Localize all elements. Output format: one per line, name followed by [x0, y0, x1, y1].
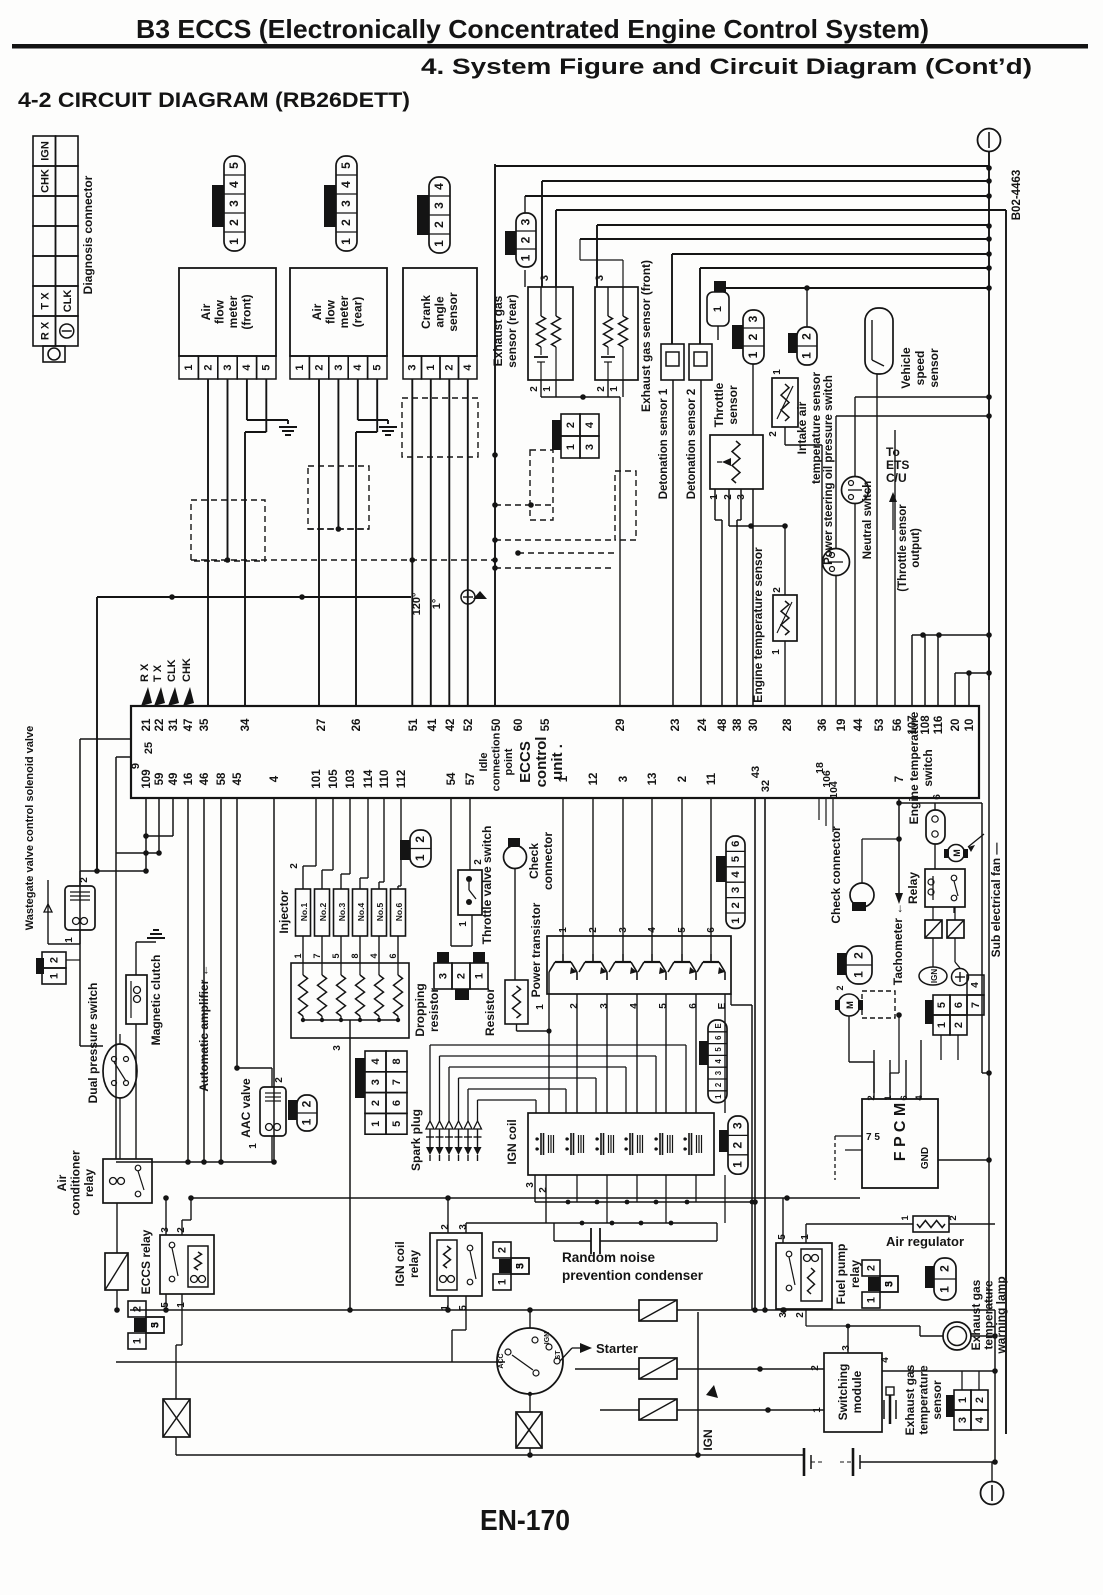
- IGN coil harness connector 7cell: [708, 1020, 727, 1103]
- shield dashed box exhaust sensor drain: [530, 450, 553, 520]
- wire DPS top: [80, 1045, 103, 1047]
- svg-text:angle: angle: [433, 296, 447, 328]
- svg-text:1: 1: [370, 1121, 382, 1127]
- exhaust gas temperature warning lamp: [943, 1322, 971, 1350]
- wire injector No.5 to dropping resistor: [378, 936, 380, 963]
- svg-text:sensor: sensor: [726, 385, 740, 425]
- wire AFM front pin5 to ECU pin34: [265, 379, 267, 432]
- AAC valve connector: [297, 1095, 317, 1131]
- fuel pump relay box: [776, 1243, 832, 1309]
- svg-text:To: To: [886, 445, 900, 459]
- wire ECU pin46 down: [203, 798, 205, 1162]
- svg-text:2: 2: [835, 985, 845, 990]
- svg-text:2: 2: [677, 776, 689, 782]
- EGS sub harness connector 4cell: [561, 414, 580, 436]
- svg-text:108: 108: [920, 715, 932, 735]
- svg-text:5: 5: [515, 1263, 526, 1269]
- svg-text:2: 2: [227, 219, 241, 226]
- wire AFM rear pin4 to ground: [357, 379, 359, 420]
- svg-text:conditioner: conditioner: [69, 1150, 83, 1216]
- svg-text:1: 1: [293, 953, 303, 958]
- wire PS switch to right bus: [854, 397, 856, 477]
- svg-text:Random noise: Random noise: [562, 1250, 656, 1265]
- sub fan relay box: [925, 869, 965, 907]
- svg-text:1: 1: [227, 238, 241, 245]
- wires coils to buses: [576, 1175, 578, 1202]
- svg-text:2: 2: [810, 1365, 821, 1371]
- svg-text:ACC: ACC: [498, 1353, 505, 1368]
- svg-text:Power transistor: Power transistor: [529, 902, 543, 997]
- svg-text:unit .: unit .: [549, 744, 566, 780]
- svg-text:M: M: [952, 849, 962, 857]
- svg-text:1: 1: [883, 1095, 894, 1101]
- svg-text:1: 1: [771, 649, 782, 655]
- svg-text:36: 36: [817, 719, 829, 732]
- spark plugs: [426, 1121, 434, 1129]
- sub fan arrow: [968, 834, 984, 847]
- svg-text:4. System Figure and Circuit: 4. System Figure and Circuit Diagram (Co…: [421, 54, 1032, 79]
- wire CAS pin3 to ECU pin51: [411, 379, 413, 706]
- fuse row 2: [639, 1358, 677, 1379]
- svg-text:4: 4: [432, 183, 446, 190]
- svg-text:2: 2: [938, 1265, 952, 1272]
- ACC feed line: [116, 1361, 505, 1363]
- svg-text:relay: relay: [407, 1250, 421, 1278]
- wire to right border: [556, 209, 1006, 211]
- ignition coil 3: [600, 1133, 602, 1155]
- wire lamp to right bus: [971, 1335, 995, 1337]
- detonation sensor 2: [689, 344, 712, 380]
- svg-text:ST: ST: [555, 1350, 562, 1360]
- coil secondary connector 3cell: [728, 1116, 748, 1174]
- svg-text:(rear): (rear): [351, 297, 365, 328]
- svg-text:21: 21: [141, 718, 153, 731]
- dropping resistor bus: [303, 1019, 398, 1021]
- IGN coil relay connector: [493, 1242, 511, 1258]
- svg-text:3: 3: [714, 1070, 723, 1075]
- injector No.2: [315, 889, 330, 936]
- exhaust loom left drop: [494, 164, 496, 706]
- crank angle sensor pin strip: [403, 356, 422, 379]
- AAC valve solenoid: [260, 1087, 286, 1136]
- svg-text:sensor: sensor: [446, 292, 460, 332]
- svg-text:34: 34: [240, 718, 252, 731]
- relay fuses: [925, 920, 942, 938]
- svg-text:IGN: IGN: [930, 969, 939, 983]
- svg-text:relay: relay: [848, 1260, 862, 1288]
- wire throttle sensor pin2 to engine temp sensor junction: [728, 489, 730, 526]
- wastegate valve control solenoid valve: [65, 886, 95, 930]
- air flow meter (rear) harness connector: [336, 156, 357, 251]
- svg-text:2: 2: [746, 333, 760, 340]
- svg-text:3: 3: [222, 364, 234, 370]
- main relay bus upper: [191, 1197, 860, 1199]
- svg-text:105: 105: [328, 769, 340, 789]
- svg-text:5: 5: [261, 364, 273, 370]
- ignition coil 1: [540, 1133, 542, 1155]
- diagnosis connector ground pin symbol: [60, 324, 74, 338]
- svg-text:3: 3: [370, 1079, 382, 1085]
- svg-text:1: 1: [746, 351, 760, 358]
- svg-text:1: 1: [300, 1118, 314, 1125]
- svg-text:connection: connection: [491, 732, 503, 791]
- wire ECU pin54 to throttle valve switch: [450, 798, 452, 946]
- svg-text:47: 47: [183, 719, 195, 732]
- air regulator: [913, 1216, 949, 1232]
- shield collector wire to ECU pin50 region: [97, 596, 411, 598]
- svg-text:2: 2: [800, 333, 814, 340]
- svg-text:Neutral switch: Neutral switch: [862, 481, 874, 560]
- wire ECU pin7 branch to engine temp switch and fan feed: [899, 802, 982, 804]
- wire ECU pins 20 10 bus: [955, 672, 989, 674]
- svg-text:IGN coil: IGN coil: [393, 1241, 407, 1286]
- svg-text:Throttle: Throttle: [712, 382, 726, 427]
- svg-text:3: 3: [841, 1345, 852, 1351]
- wire check connector to resistor: [514, 868, 516, 980]
- svg-text:2: 2: [866, 1095, 877, 1100]
- svg-text:3: 3: [618, 776, 630, 782]
- svg-text:23: 23: [670, 719, 682, 732]
- svg-text:2: 2: [413, 836, 427, 843]
- svg-text:1: 1: [535, 1004, 546, 1010]
- right border wire: [1005, 210, 1007, 1434]
- wire FPCM GND right: [938, 1159, 989, 1161]
- svg-text:2: 2: [596, 386, 607, 392]
- svg-text:E: E: [717, 1002, 728, 1009]
- wire EGS front out: [607, 380, 609, 397]
- svg-text:9: 9: [130, 763, 142, 769]
- svg-text:1: 1: [339, 238, 353, 245]
- fusible link ignition: [516, 1412, 542, 1448]
- wires air regulator: [806, 1223, 913, 1225]
- shield dashed box AFM front: [191, 500, 265, 561]
- wire ECU pin45 down: [236, 798, 238, 1068]
- sensor cell rear: [540, 347, 542, 355]
- wire CAS pin1 to ECU pin41: [430, 379, 432, 706]
- svg-text:EN-170: EN-170: [480, 1505, 570, 1537]
- svg-text:54: 54: [446, 772, 458, 785]
- resistor box: [505, 980, 528, 1024]
- svg-text:meter: meter: [226, 295, 240, 328]
- sub harness connector single cell: [714, 281, 726, 292]
- svg-text:Idle: Idle: [478, 753, 490, 772]
- svg-text:Dual pressure switch: Dual pressure switch: [86, 983, 100, 1104]
- svg-text:Air: Air: [55, 1174, 69, 1191]
- right feed vertical: [697, 1312, 699, 1455]
- svg-text:1: 1: [49, 973, 61, 979]
- svg-text:R X: R X: [139, 663, 151, 682]
- wire ECU pin16 down: [187, 798, 189, 1162]
- svg-text:1: 1: [900, 1215, 911, 1221]
- svg-text:10: 10: [964, 719, 976, 732]
- injector No.6: [391, 889, 406, 936]
- svg-text:Engine temperature: Engine temperature: [907, 711, 921, 824]
- svg-text:3: 3: [432, 202, 446, 209]
- throttle sensor connector 3cell: [743, 310, 764, 364]
- svg-text:55: 55: [540, 718, 552, 731]
- svg-text:1: 1: [712, 306, 724, 312]
- svg-text:7: 7: [894, 776, 906, 782]
- svg-text:26: 26: [351, 719, 363, 732]
- svg-text:110: 110: [379, 770, 391, 789]
- battery positive terminal circle top right: [978, 129, 1001, 152]
- svg-text:CHK: CHK: [39, 169, 51, 193]
- svg-text:6: 6: [714, 1035, 723, 1040]
- svg-text:28: 28: [782, 718, 794, 731]
- svg-text:1: 1: [730, 917, 742, 924]
- svg-text:(front): (front): [240, 294, 254, 329]
- svg-text:Dropping: Dropping: [413, 983, 427, 1036]
- ECCS relay box: [160, 1235, 214, 1294]
- svg-text:1: 1: [609, 386, 620, 392]
- svg-text:27: 27: [316, 719, 328, 732]
- svg-text:42: 42: [445, 719, 457, 732]
- wire ECU pin49 down: [172, 798, 174, 836]
- svg-text:5: 5: [150, 1322, 161, 1328]
- svg-text:4: 4: [730, 871, 742, 878]
- svg-text:Automatic amplifier ←: Automatic amplifier ←: [197, 964, 211, 1091]
- svg-text:4: 4: [370, 1057, 382, 1064]
- wire ECU pin32 down to ground bus: [764, 798, 766, 1310]
- svg-text:Switching: Switching: [836, 1364, 850, 1421]
- wire exhaust loom 2: [542, 180, 989, 182]
- wire ECU to injector No.4: [367, 798, 369, 878]
- wire detonation 2: [700, 267, 989, 269]
- svg-text:4: 4: [629, 1003, 640, 1009]
- svg-text:4: 4: [269, 775, 281, 782]
- wire injector No.2 to dropping resistor: [321, 936, 323, 963]
- svg-text:2: 2: [444, 364, 456, 370]
- svg-text:Injector: Injector: [277, 890, 291, 934]
- shield drain dashed bus: [191, 559, 495, 561]
- svg-text:3: 3: [339, 200, 353, 207]
- wire PS switch to ECU pin44: [854, 503, 856, 706]
- svg-text:1: 1: [957, 1397, 969, 1403]
- wire ECU pins 107 108 bus: [912, 634, 989, 636]
- svg-text:1: 1: [132, 1338, 144, 1344]
- svg-text:120°: 120°: [411, 593, 423, 616]
- wire ignition switch bottom to fusible link: [529, 1394, 531, 1412]
- sensor cell front: [607, 347, 609, 355]
- svg-text:6: 6: [899, 1095, 910, 1100]
- svg-text:prevention condenser: prevention condenser: [562, 1268, 704, 1283]
- injector No.5: [372, 889, 387, 936]
- svg-text:1: 1: [425, 364, 437, 370]
- svg-text:59: 59: [154, 773, 166, 786]
- svg-text:CLK: CLK: [166, 659, 178, 682]
- svg-text:F P C M: F P C M: [892, 1103, 909, 1161]
- svg-text:49: 49: [168, 773, 180, 786]
- svg-text:Air: Air: [199, 303, 213, 320]
- svg-text:114: 114: [363, 769, 375, 788]
- header rule: [12, 44, 1088, 49]
- svg-text:C/U: C/U: [886, 471, 907, 485]
- svg-text:2: 2: [202, 364, 214, 370]
- wires sensor connector up: [961, 1371, 963, 1390]
- check connector right: [850, 883, 874, 907]
- svg-text:2: 2: [866, 1265, 878, 1271]
- IGN coil bus 1: [534, 1175, 536, 1202]
- svg-text:Power steering oil pressure sw: Power steering oil pressure switch: [823, 375, 835, 565]
- wires switching module: [847, 1326, 849, 1353]
- svg-text:2: 2: [768, 431, 779, 437]
- wire 25 drop: [79, 739, 81, 1046]
- wires fuel pump relay: [782, 1198, 784, 1243]
- svg-text:5: 5: [714, 1047, 723, 1052]
- right bus lower: [988, 680, 990, 1310]
- svg-text:2: 2: [300, 1100, 314, 1107]
- wire dropping resistor to fuel pump circuit: [349, 1020, 351, 1310]
- svg-text:T X: T X: [39, 292, 51, 310]
- bottom supply line: [176, 1454, 804, 1456]
- svg-text:3: 3: [599, 1003, 610, 1009]
- svg-text:Relay: Relay: [906, 872, 920, 904]
- svg-text:Engine temperature sensor: Engine temperature sensor: [751, 547, 765, 703]
- svg-text:112: 112: [396, 770, 408, 789]
- power transistor harness connector 6cell: [726, 836, 745, 928]
- air conditioner relay: [103, 1159, 152, 1203]
- plus circle: [952, 969, 969, 986]
- wire ECU to injector No.1: [315, 798, 317, 866]
- svg-text:4: 4: [339, 181, 353, 188]
- svg-text:5: 5: [884, 1281, 895, 1287]
- svg-text:sensor: sensor: [927, 348, 941, 388]
- svg-text:1: 1: [413, 854, 427, 861]
- wire AFM rear pin5 to ECU pin26: [376, 379, 378, 432]
- tachometer dashed box: [862, 991, 895, 1018]
- wire 9 drop: [115, 757, 117, 1159]
- svg-text:5: 5: [658, 1003, 669, 1009]
- svg-text:4: 4: [914, 1095, 925, 1101]
- ground AFM rear: [379, 426, 397, 428]
- wire fan connector down: [940, 1035, 942, 1060]
- svg-text:12: 12: [588, 773, 600, 786]
- wire exhaust loom 1: [495, 165, 989, 167]
- svg-text:3: 3: [407, 364, 419, 370]
- wire CAS pin4 to ECU pin52: [467, 379, 469, 706]
- wires FPCM top: [873, 1050, 875, 1099]
- intake air temp connector: [797, 327, 817, 365]
- svg-text:Air regulator: Air regulator: [886, 1234, 964, 1249]
- svg-text:1: 1: [458, 921, 469, 927]
- IGN coil bus 2: [545, 1175, 547, 1223]
- svg-text:8: 8: [350, 953, 360, 958]
- svg-text:2: 2: [974, 1397, 986, 1403]
- engine temperature sensor box: [773, 595, 797, 641]
- svg-text:6: 6: [730, 841, 742, 847]
- FPCM box: [862, 1099, 938, 1188]
- ignition coil 4: [629, 1133, 631, 1155]
- svg-text:44: 44: [853, 718, 865, 731]
- svg-text:E: E: [714, 1023, 723, 1028]
- svg-text:2: 2: [313, 364, 325, 370]
- svg-text:5: 5: [372, 364, 384, 370]
- svg-text:control: control: [533, 737, 550, 788]
- svg-text:Starter: Starter: [596, 1341, 638, 1356]
- heater resistor front 2: [622, 287, 624, 316]
- svg-text:19: 19: [836, 719, 848, 732]
- svg-text:Magnetic clutch: Magnetic clutch: [149, 955, 163, 1046]
- svg-text:2: 2: [538, 1187, 549, 1193]
- svg-text:11: 11: [706, 772, 718, 785]
- svg-text:2: 2: [795, 1312, 806, 1318]
- svg-text:103: 103: [345, 769, 357, 788]
- svg-text:No.2: No.2: [318, 903, 328, 922]
- svg-text:29: 29: [615, 719, 627, 732]
- svg-text:3: 3: [519, 218, 533, 225]
- wire intake air temp to ECU pin36: [784, 427, 786, 445]
- svg-text:2: 2: [519, 236, 533, 243]
- svg-text:5: 5: [339, 162, 353, 169]
- svg-text:5: 5: [227, 162, 241, 169]
- svg-text:2: 2: [953, 1022, 965, 1028]
- svg-text:Detonation sensor 1: Detonation sensor 1: [658, 388, 670, 499]
- battery: [803, 1448, 806, 1476]
- wire injector No.6 to dropping resistor: [397, 936, 399, 963]
- wire magnetic clutch bottom: [135, 1024, 137, 1159]
- svg-text:43: 43: [750, 766, 762, 778]
- connector 1 2 pill above throttle valve switch: [410, 830, 431, 867]
- svg-text:module: module: [850, 1370, 864, 1413]
- svg-text:45: 45: [232, 772, 244, 785]
- svg-text:Check connector: Check connector: [829, 826, 843, 924]
- wire AAC valve bottom: [271, 1136, 273, 1162]
- magnetic clutch ground: [135, 942, 137, 975]
- wires FPCM left: [835, 1135, 862, 1137]
- fuse row 3: [639, 1399, 677, 1420]
- wires IGN coil relay: [447, 1198, 449, 1233]
- wire ECU to injector No.6: [400, 798, 402, 886]
- wires ECU to power transistor bases: [562, 798, 564, 954]
- ignition switch: [497, 1328, 563, 1394]
- svg-text:4: 4: [974, 1416, 986, 1423]
- svg-text:101: 101: [311, 769, 323, 789]
- bus to AAC region: [116, 1161, 274, 1163]
- svg-text:2: 2: [370, 1100, 382, 1106]
- svg-text:32: 32: [760, 780, 772, 792]
- svg-text:1: 1: [565, 444, 577, 450]
- svg-text:22: 22: [154, 719, 166, 732]
- svg-text:Fuel pump: Fuel pump: [834, 1244, 848, 1305]
- svg-text:No.5: No.5: [375, 903, 385, 922]
- svg-text:5: 5: [936, 1002, 948, 1008]
- svg-text:No.4: No.4: [356, 903, 366, 922]
- starter wire: [560, 1348, 572, 1361]
- svg-text:4: 4: [227, 181, 241, 188]
- IGN coil box: [528, 1113, 714, 1175]
- wires IGN coil to spark plugs: [429, 1045, 431, 1121]
- battery negative terminal circle: [981, 1482, 1004, 1505]
- svg-text:Sub electrical fan —: Sub electrical fan —: [989, 843, 1003, 958]
- svg-text:2: 2: [852, 952, 866, 959]
- wire throttle sensor pin3 to ECU pin38: [740, 489, 742, 520]
- svg-text:1: 1: [294, 364, 306, 370]
- svg-text:48: 48: [717, 718, 729, 731]
- svg-text:T X: T X: [152, 664, 164, 682]
- wires ECU pins 18 106 104 down: [818, 798, 820, 820]
- wire intake air temp connector up to loom: [806, 288, 808, 327]
- svg-text:6: 6: [932, 794, 943, 800]
- svg-text:109: 109: [141, 769, 153, 788]
- svg-text:2: 2: [274, 1077, 285, 1083]
- wire ignition switch top: [529, 1310, 531, 1328]
- svg-text:4: 4: [584, 421, 596, 428]
- svg-text:4: 4: [241, 364, 253, 371]
- svg-text:41: 41: [427, 718, 439, 731]
- connector 1 2 pill tach: [846, 946, 872, 984]
- svg-text:5: 5: [458, 1305, 469, 1311]
- svg-text:output): output): [910, 528, 922, 568]
